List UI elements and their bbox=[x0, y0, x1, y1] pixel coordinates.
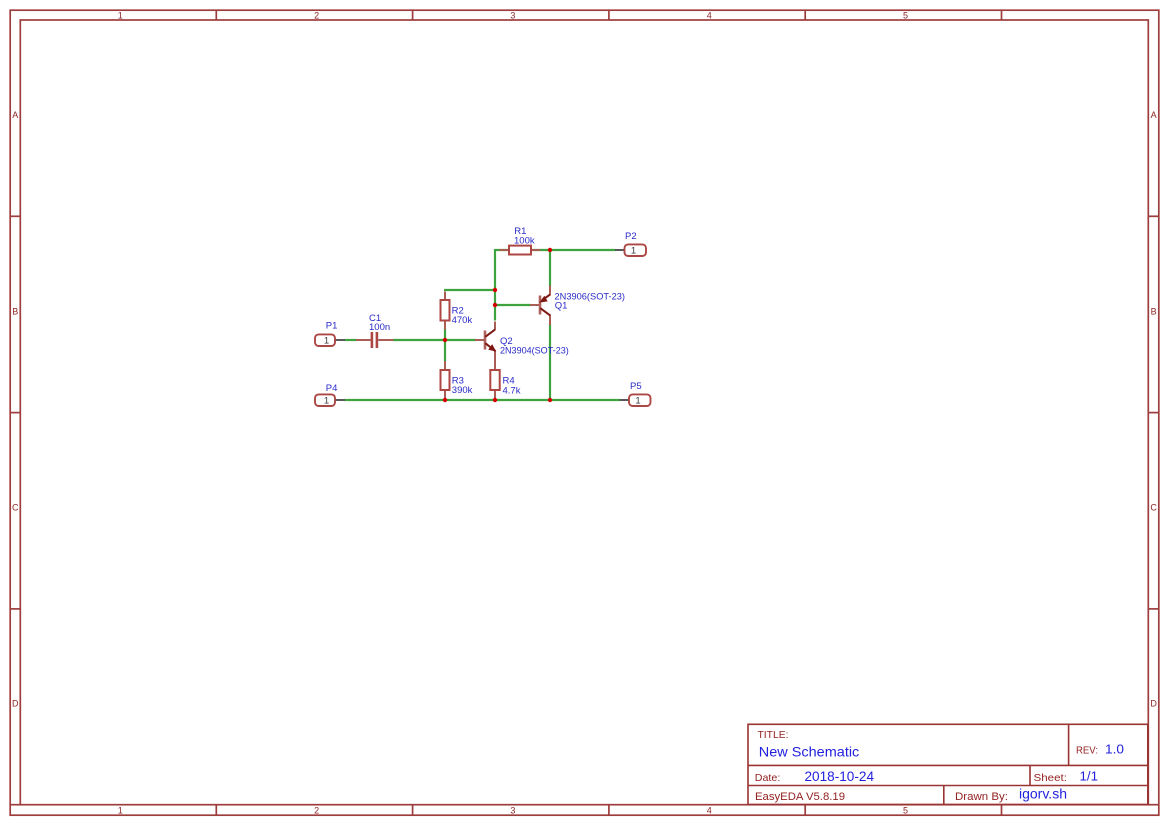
wire node to Q1 emitter bbox=[549, 249, 551, 287]
svg-text:3: 3 bbox=[510, 10, 515, 20]
wire vertical main node x495 bbox=[494, 249, 496, 321]
transistor Q2 (NPN 2N3904) bbox=[475, 322, 569, 357]
svg-text:EasyEDA V5.8.19: EasyEDA V5.8.19 bbox=[755, 791, 845, 803]
svg-text:Sheet:: Sheet: bbox=[1034, 772, 1068, 784]
svg-text:5: 5 bbox=[903, 806, 908, 816]
wire R2 top to node at x495 bbox=[444, 289, 496, 291]
title block text bbox=[755, 730, 1098, 803]
svg-text:2: 2 bbox=[314, 10, 319, 20]
svg-text:100n: 100n bbox=[369, 322, 390, 333]
svg-text:4: 4 bbox=[707, 806, 712, 816]
svg-text:Date:: Date: bbox=[755, 772, 781, 784]
resistor R4 bbox=[490, 350, 520, 400]
junction node Q1 base rail bbox=[493, 303, 497, 307]
svg-text:5: 5 bbox=[903, 10, 908, 20]
wire bottom rail P4 to P5 bbox=[345, 399, 621, 401]
svg-text:Q1: Q1 bbox=[555, 301, 568, 312]
connector P4 bbox=[315, 383, 345, 406]
connector P5 bbox=[620, 381, 651, 407]
svg-text:100k: 100k bbox=[514, 236, 535, 247]
title block bbox=[748, 724, 1148, 804]
svg-text:2N3904(SOT-23): 2N3904(SOT-23) bbox=[500, 346, 569, 357]
svg-text:1/1: 1/1 bbox=[1080, 769, 1099, 784]
wire Q1 collector to bottom rail bbox=[549, 324, 551, 401]
svg-text:C: C bbox=[12, 503, 19, 513]
svg-text:3: 3 bbox=[510, 806, 515, 816]
svg-text:Drawn By:: Drawn By: bbox=[955, 791, 1008, 803]
svg-text:TITLE:: TITLE: bbox=[758, 730, 789, 741]
svg-text:C: C bbox=[1150, 503, 1157, 513]
resistor R2 bbox=[441, 292, 473, 330]
wire C1 to Q2 base node bbox=[393, 339, 476, 341]
svg-text:D: D bbox=[12, 698, 19, 708]
connector P1 bbox=[315, 320, 345, 346]
wire R2 bottom to node bbox=[444, 329, 446, 342]
junction node R3 bottom rail bbox=[443, 398, 447, 402]
svg-text:D: D bbox=[1150, 698, 1157, 708]
svg-text:1: 1 bbox=[118, 806, 123, 816]
CIRCUIT bbox=[315, 226, 651, 407]
svg-text:2: 2 bbox=[314, 806, 319, 816]
svg-text:B: B bbox=[12, 307, 18, 317]
svg-text:4: 4 bbox=[707, 10, 712, 20]
svg-text:1: 1 bbox=[631, 246, 636, 257]
svg-text:1.0: 1.0 bbox=[1105, 741, 1124, 756]
svg-text:A: A bbox=[1151, 110, 1157, 120]
junction node R2/C1/Q2 base bbox=[443, 338, 447, 342]
svg-text:1: 1 bbox=[324, 396, 329, 407]
svg-text:P4: P4 bbox=[326, 383, 338, 394]
wire node to R3 top bbox=[444, 339, 446, 361]
svg-text:2018-10-24: 2018-10-24 bbox=[805, 769, 875, 784]
svg-text:P2: P2 bbox=[625, 231, 637, 242]
svg-text:REV:: REV: bbox=[1076, 744, 1098, 756]
svg-text:470k: 470k bbox=[452, 315, 473, 326]
svg-text:390k: 390k bbox=[452, 385, 473, 396]
svg-text:New Schematic: New Schematic bbox=[759, 743, 860, 759]
resistor R3 bbox=[441, 361, 473, 400]
wire R1 row top rail bbox=[495, 249, 616, 251]
svg-text:4.7k: 4.7k bbox=[503, 385, 521, 396]
svg-text:B: B bbox=[1151, 307, 1157, 317]
junction node Q1 collector bottom rail bbox=[548, 398, 552, 402]
resistor R1 bbox=[500, 226, 541, 255]
svg-text:P5: P5 bbox=[630, 381, 642, 392]
svg-text:1: 1 bbox=[118, 10, 123, 20]
svg-text:1: 1 bbox=[635, 396, 640, 407]
svg-text:1: 1 bbox=[324, 336, 329, 347]
svg-text:P1: P1 bbox=[326, 320, 338, 331]
junction node R2 top rail bbox=[493, 288, 497, 292]
connector P2 bbox=[615, 231, 646, 257]
wire node to Q1 base bbox=[494, 304, 531, 306]
transistor Q1 (PNP 2N3906) bbox=[530, 286, 625, 326]
svg-text:A: A bbox=[12, 110, 18, 120]
junction node R1/P2/Q1 emitter bbox=[548, 248, 552, 252]
junction node R4 bottom rail bbox=[493, 398, 497, 402]
svg-text:igorv.sh: igorv.sh bbox=[1019, 787, 1067, 802]
wire P1 to C1 bbox=[345, 339, 358, 341]
capacitor C1 bbox=[356, 313, 394, 348]
